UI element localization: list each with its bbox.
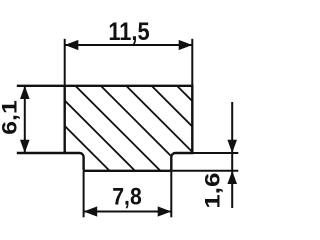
svg-text:7,8: 7,8 — [112, 183, 142, 210]
extension line right lower (tongue bottom level) — [172, 170, 238, 172]
dimension 11,5 line — [65, 44, 193, 46]
dimension 6,1 line — [24, 86, 26, 153]
underside line left flange — [17, 152, 65, 154]
dimension 11,5 right extension line — [191, 39, 193, 86]
dimension 1,6 lower arrowhead (points up) — [227, 171, 237, 184]
svg-text:1,6: 1,6 — [201, 173, 224, 209]
dimension 11,5 right arrowhead — [179, 40, 193, 50]
dimension 7,8 line — [84, 211, 172, 213]
section hatching 45deg — [0, 50, 291, 200]
dimension 7,8 right arrowhead — [158, 206, 172, 216]
profile outline — [65, 86, 193, 171]
top surface line left flange — [17, 85, 65, 87]
svg-text:6,1: 6,1 — [0, 100, 22, 135]
dimension 1,6 line — [231, 102, 233, 208]
dimension 11,5 left arrowhead — [65, 40, 79, 50]
profile cross-section body (block with bottom tongue) — [65, 86, 193, 171]
dimension 7,8 right extension line — [170, 171, 172, 218]
dimension 7,8 left arrowhead — [84, 206, 98, 216]
dimension 6,1 top arrowhead — [20, 86, 30, 99]
dimension 1,6 upper arrowhead (points down) — [227, 140, 237, 153]
dimension 11,5 left extension line — [64, 39, 66, 86]
dimension 6,1 bottom arrowhead — [20, 140, 30, 153]
extension line right upper (underside level) — [192, 152, 238, 154]
svg-text:11,5: 11,5 — [108, 18, 149, 46]
dimension 7,8 left extension line — [83, 171, 85, 218]
